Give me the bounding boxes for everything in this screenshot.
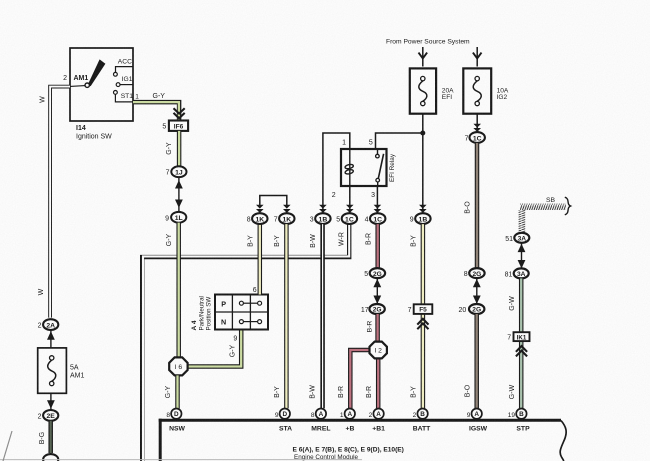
- wire stub AM1 to box edge: [70, 85, 85, 88]
- terminal 8 A MREL: [316, 409, 326, 419]
- terminal 9 D STA: [280, 409, 290, 419]
- relay coil: [349, 149, 351, 186]
- connector 8 2G: [469, 268, 484, 278]
- double chevron arrow into IF6: [174, 108, 185, 118]
- connector 2 2E: [43, 410, 58, 421]
- wire B-G 2E down: [48, 421, 53, 453]
- connector 7 1J: [171, 166, 186, 177]
- relay EFI box: [341, 149, 387, 186]
- terminal 9 A IGSW: [472, 409, 482, 419]
- fuse 10A IG2: [463, 68, 491, 113]
- arrow into 1B(3): [319, 205, 327, 209]
- wire B-R junction I2 branch to +B: [350, 350, 370, 408]
- arrow into 1C(5): [346, 205, 354, 209]
- connector 3 1B: [315, 213, 330, 224]
- wire B-Y connector 1K(8) to A4 pin 6: [258, 224, 263, 294]
- terminal 1 A +B: [345, 409, 355, 419]
- wire from EFI fuse down to 1B(9): [422, 114, 424, 213]
- hatched wire SB vertical: [519, 210, 526, 233]
- connector 9 1B: [415, 213, 430, 224]
- wire B-R junction I2 to +B1: [376, 358, 381, 408]
- connector 51 3A: [514, 233, 529, 243]
- bottom clipped connector: [43, 454, 58, 461]
- wire B-O 1C(7) to 2G(8): [475, 143, 480, 268]
- terminal 19 B STP: [516, 409, 526, 419]
- arrow into 1B(9): [419, 205, 427, 209]
- connector 5 2G: [370, 268, 385, 278]
- wire from relay pin 1 up-over-down to connector 1B(3): [323, 133, 350, 213]
- ECM left edge: [159, 419, 162, 461]
- relay switch: [377, 149, 379, 155]
- wire B-Y 1K(7) to STA: [284, 224, 289, 408]
- arrow into 1K(7): [283, 205, 291, 209]
- wire W from AM1 down left side: [50, 87, 70, 318]
- junction dot EFI feed: [420, 131, 425, 136]
- connector 2 2A: [43, 319, 58, 330]
- wire B-R 2G(17) to junction I2: [375, 314, 380, 342]
- fuse 5A AM1: [38, 348, 67, 393]
- connector 8 1K: [252, 213, 267, 224]
- bridge wire linking 1K pin8 and 1K pin7: [260, 196, 287, 207]
- wire B-Y F5 to BATT: [421, 314, 426, 409]
- link fuse to 2E with arrow: [50, 393, 52, 410]
- arrow into 1C(7): [473, 124, 481, 128]
- wire G-Y IF6 to 1J: [177, 131, 182, 166]
- ECM torn right edge: [560, 421, 566, 461]
- connector F5: [414, 304, 433, 314]
- connector 7 1C: [470, 132, 485, 143]
- arrow feed into EFI fuse: [422, 47, 424, 67]
- connector 7 1K: [279, 213, 294, 224]
- terminal 8 D NSW: [171, 409, 181, 419]
- arrow into 1C(4): [374, 205, 382, 209]
- ignition key symbol: [88, 59, 106, 86]
- hatched wire SB horizontal: [520, 204, 566, 210]
- terminal ST1: [114, 91, 118, 95]
- connector 5 1C: [342, 213, 357, 224]
- ignition switch I14 box: [70, 48, 133, 121]
- relay pin 2: [349, 186, 351, 213]
- connector 17 2G: [369, 304, 384, 314]
- link 2G(5) to 2G(17) with arrows: [376, 278, 378, 304]
- chevron arrows below F5: [417, 319, 428, 329]
- switch A4 Park/Neutral Position SW box: [215, 295, 268, 330]
- relay pin 5 wire to junction with EFI fuse feed: [376, 133, 423, 149]
- arrow feed into IG2 fuse: [476, 47, 478, 67]
- arrow into 1K(8): [256, 205, 264, 209]
- wire B-O 2G(20) to IGSW: [474, 314, 479, 408]
- wire G-Y from ST1 to IF6: [133, 102, 179, 120]
- relay pin 3: [376, 186, 378, 213]
- wire G-Y junction I6 to A4 pin 9: [186, 330, 241, 367]
- connector IK1: [514, 332, 530, 341]
- link 2A to fuse with arrow: [50, 330, 52, 348]
- link 2G(8) to 2G(20) with arrows: [476, 278, 478, 304]
- connector 81 3A: [514, 268, 529, 278]
- scan edge artifacts: [0, 459, 362, 461]
- fuse 20A EFI: [410, 68, 436, 113]
- wire B-R 1C(4) to 2G(5): [375, 224, 380, 268]
- chevron arrows below IK1: [516, 346, 527, 356]
- wire G-W IK1 to STP: [519, 341, 524, 408]
- connector 4 1C: [370, 213, 385, 224]
- ECM top edge: [159, 419, 561, 422]
- connector 9 1L: [171, 212, 186, 223]
- wire G-Y 1L to junction I6: [176, 223, 181, 358]
- terminal IG1: [116, 83, 120, 87]
- link 1J to 1L with arrows: [178, 177, 180, 212]
- wire W-R horizontal run from connector 1C pin5 down-left-down (drawn first so vertical wires cross over it): [142, 224, 349, 461]
- continuation brace: [565, 197, 571, 215]
- terminal 2 A +B1: [373, 409, 383, 419]
- link 3A(51) to 3A(81) with arrows: [521, 243, 523, 268]
- terminal 2 B BATT: [417, 409, 427, 419]
- wire B-W 1B(3) to MREL: [320, 224, 325, 408]
- contact row N: [243, 321, 257, 323]
- junction connector I6 octagon: [169, 357, 187, 375]
- wire G-W 3A(81) to IK1: [519, 278, 524, 332]
- connector IF6: [169, 121, 188, 131]
- wire G-Y I6 to NSW: [175, 375, 180, 408]
- connector 20 2G: [469, 304, 484, 314]
- wire IG2 fuse to 1C(7): [476, 114, 478, 128]
- junction connector I2 octagon: [370, 342, 387, 359]
- contact row P: [243, 302, 257, 304]
- wire B-Y 1B(9) to F5: [421, 224, 426, 304]
